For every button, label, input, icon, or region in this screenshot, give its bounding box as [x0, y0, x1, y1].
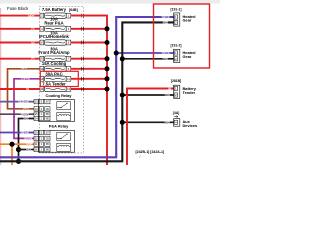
cropped highlight edge left	[0, 8, 1, 165]
label [4A] with arrow	[173, 111, 180, 118]
svg-text:V/BE: V/BE	[21, 131, 28, 135]
svg-text:[191-2]: [191-2]	[171, 43, 182, 47]
svg-text:Devices: Devices	[183, 123, 198, 128]
svg-text:↓↑: ↓↑	[139, 155, 143, 159]
connector Heated Gear 2	[174, 49, 196, 62]
wire R/BE pac fuse input from P&A relay 30	[14, 77, 40, 141]
junction red bus y=58.7	[105, 56, 110, 61]
fuse F1 7.5A Battery	[40, 7, 71, 18]
svg-text:Gear: Gear	[183, 17, 192, 22]
wire BK ground bus down to bottom left	[0, 22, 175, 161]
junction red bus y=89.0	[105, 87, 110, 92]
wire V/BE P&A relay coil feed	[0, 131, 34, 135]
svg-text:15A Cooling: 15A Cooling	[42, 61, 67, 66]
junction BK at ground bus	[16, 159, 21, 164]
wire V/BE bus heated gear feed down to bottom left	[0, 17, 175, 157]
connector Heated Gear 1	[174, 13, 196, 26]
svg-text:Fuse Block: Fuse Block	[7, 6, 29, 11]
junction V/BE bus heated gear 2	[114, 51, 119, 56]
highlight box heated gear circuits	[154, 4, 210, 68]
svg-text:[191-1]: [191-1]	[171, 8, 182, 12]
wire R ifcu fuse input	[0, 41, 40, 45]
fuse F5 15A Cooling	[40, 61, 71, 71]
fuse F7 7.5A Tender	[40, 81, 71, 91]
svg-text:Tender: Tender	[183, 90, 196, 95]
wire fuse F6 30A PAC output	[71, 77, 107, 81]
svg-text:Gear: Gear	[183, 54, 192, 59]
wire BN cooling fuse input from cooling relay 30	[8, 67, 40, 111]
svg-text:7.5A Tender: 7.5A Tender	[42, 81, 66, 86]
svg-text:[64B]: [64B]	[69, 8, 78, 12]
svg-text:P&A Relay: P&A Relay	[49, 124, 69, 129]
relay K2 P&A	[34, 124, 75, 153]
wire R/O battery fuse input	[0, 14, 40, 18]
wire fuse F3 10A IFCU/Homelink output	[71, 41, 107, 45]
svg-text:[4A]: [4A]	[173, 111, 180, 115]
svg-text:30A PAC: 30A PAC	[45, 72, 62, 77]
junction BK branch to P&A relay	[16, 147, 34, 152]
connector Aux Devices	[174, 119, 198, 128]
wire V/GN cooling relay	[0, 112, 34, 116]
wire BN/BE cooling relay coil feed	[0, 100, 34, 104]
wire fuse F1 7.5A Battery output	[71, 14, 107, 18]
wire fuse F4 30A Front P&A/Amp output	[71, 57, 107, 61]
svg-text:R/BE: R/BE	[22, 77, 29, 81]
connector Battery Tender	[174, 85, 197, 98]
wire fuse F7 7.5A Tender output	[71, 87, 107, 91]
svg-text:R/Y: R/Y	[26, 142, 31, 146]
svg-text:R/O: R/O	[29, 14, 35, 18]
wire R/Y P&A relay with branch down off page	[0, 142, 34, 165]
svg-text:Cooling Relay: Cooling Relay	[46, 93, 73, 98]
wire BK aux devices tap	[122, 121, 174, 123]
junction red bus y=42.5	[105, 40, 110, 45]
junction red bus y=68.8	[105, 66, 110, 71]
svg-text:BN: BN	[22, 67, 26, 71]
svg-text:BN: BN	[24, 107, 28, 111]
junction red bus y=78.8	[105, 76, 110, 81]
top window edge band	[0, 0, 220, 4]
wire BK cooling relay ground down to bottom bus	[19, 117, 35, 162]
wire BK battery tender tap	[122, 94, 174, 96]
wire R battery tender down off page	[127, 89, 175, 166]
fuse block dashed border	[40, 6, 84, 153]
svg-text:V/BE: V/BE	[162, 15, 169, 19]
junction BK bus heated gear 2	[120, 56, 125, 61]
wire fuse F5 15A Cooling output	[71, 67, 107, 71]
svg-text:Rear P&A: Rear P&A	[44, 20, 63, 25]
highlight box 30A PAC fuse	[40, 71, 78, 86]
fuse F4 30A Front P&A/Amp	[38, 47, 70, 62]
wire R rear fuse input	[0, 27, 40, 31]
fuse F6 30A PAC	[40, 72, 71, 82]
svg-text:Front P&A/Amp: Front P&A/Amp	[38, 50, 70, 55]
fuse F3 10A IFCU/Homelink	[39, 30, 71, 45]
svg-text:V/BE: V/BE	[162, 51, 169, 55]
svg-text:BN/BE: BN/BE	[19, 100, 28, 104]
wire BK heated gear 2 tap	[122, 58, 174, 60]
fuse F2 10A Rear P&A	[40, 17, 71, 32]
junction red bus y=28.8	[105, 26, 110, 31]
wire R tender fuse input	[0, 87, 40, 91]
wire fuse F2 10A Rear P&A output	[71, 27, 107, 31]
wire red battery bus	[71, 16, 107, 165]
svg-text:7.5A Battery: 7.5A Battery	[42, 7, 67, 12]
relay K1 Cooling	[34, 93, 75, 121]
svg-text:[281B]: [281B]	[171, 79, 181, 83]
wire R front fuse input	[0, 57, 40, 61]
svg-text:IFCU/Homelink: IFCU/Homelink	[39, 34, 69, 39]
wire V/BE heated gear 2 tap	[116, 52, 174, 54]
svg-text:R/BE: R/BE	[24, 137, 31, 141]
